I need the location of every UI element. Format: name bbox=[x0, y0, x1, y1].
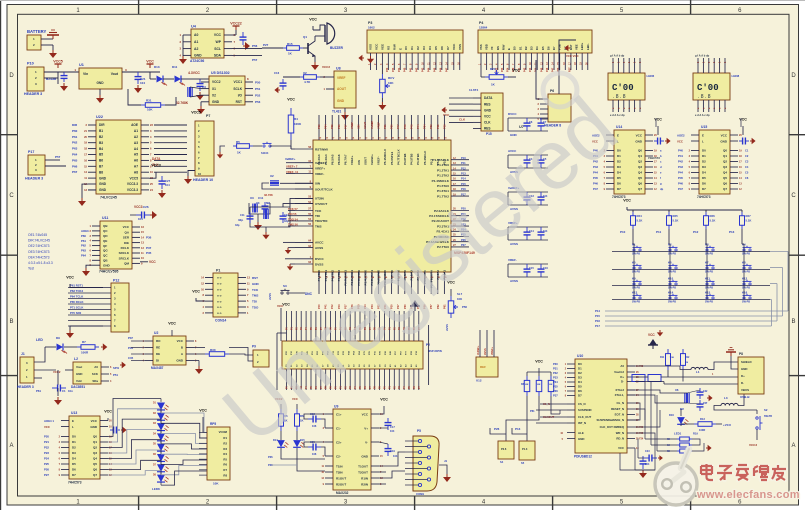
ground C4 bbox=[60, 83, 68, 91]
svg-text:P62: P62 bbox=[81, 244, 86, 248]
svg-text:P15: P15 bbox=[486, 132, 492, 136]
svg-text:U9: U9 bbox=[334, 405, 338, 409]
svg-text:P45: P45 bbox=[433, 67, 436, 72]
svg-text:P46: P46 bbox=[678, 182, 683, 186]
svg-text:A5: A5 bbox=[134, 153, 138, 157]
wire trio bottoms bbox=[526, 396, 528, 441]
svg-text:LED+: LED+ bbox=[580, 42, 584, 50]
svg-text:e d A A c dp: e d A A c dp bbox=[610, 113, 625, 117]
svg-text:D3: D3 bbox=[578, 376, 582, 380]
capacitor C3 bbox=[197, 79, 204, 91]
svg-text:P70 SD0: P70 SD0 bbox=[70, 311, 82, 315]
power P1 vcc bbox=[196, 298, 205, 301]
resistor R5b bbox=[233, 144, 253, 149]
svg-text:VCC2: VCC2 bbox=[322, 65, 330, 69]
svg-text:VCC5: VCC5 bbox=[129, 176, 138, 180]
svg-text:D11: D11 bbox=[172, 65, 178, 69]
svg-text:P33: P33 bbox=[392, 67, 395, 72]
svg-text:P35: P35 bbox=[553, 385, 558, 389]
power AVCC bbox=[283, 241, 295, 243]
svg-text:GND: GND bbox=[176, 359, 184, 363]
svg-text:P47: P47 bbox=[678, 187, 683, 191]
svg-text:o o: o o bbox=[217, 305, 222, 309]
svg-text:P35: P35 bbox=[146, 251, 152, 255]
resistor R13 bbox=[694, 422, 716, 427]
svg-text:X6: X6 bbox=[675, 388, 679, 392]
svg-text:10K: 10K bbox=[147, 108, 153, 112]
svg-text:D5: D5 bbox=[434, 46, 438, 50]
svg-text:VCC: VCC bbox=[380, 397, 388, 401]
svg-text:100K: 100K bbox=[294, 122, 302, 126]
svg-text:32.768: 32.768 bbox=[264, 193, 273, 197]
svg-text:GND: GND bbox=[361, 454, 369, 458]
svg-text:D6: D6 bbox=[702, 182, 706, 186]
svg-text:Q5: Q5 bbox=[93, 462, 97, 466]
svg-text:DVSS: DVSS bbox=[315, 262, 323, 266]
svg-text:P67: P67 bbox=[72, 170, 78, 174]
svg-text:Q1: Q1 bbox=[303, 35, 307, 39]
svg-text:C15: C15 bbox=[529, 266, 534, 270]
svg-text:U14: U14 bbox=[616, 125, 622, 129]
svg-text:P17: P17 bbox=[595, 324, 600, 328]
svg-text:VREF: VREF bbox=[350, 122, 354, 129]
svg-text:GND: GND bbox=[103, 263, 111, 267]
svg-text:P34: P34 bbox=[128, 346, 133, 350]
svg-text:DI: DI bbox=[156, 359, 159, 363]
svg-text:D4: D4 bbox=[535, 46, 539, 50]
svg-text:AVSS: AVSS bbox=[484, 348, 487, 355]
svg-text:P30: P30 bbox=[553, 362, 558, 366]
svg-text:RS: RS bbox=[386, 46, 390, 50]
svg-text:C2: C2 bbox=[745, 154, 749, 158]
svg-text:EOT_N: EOT_N bbox=[615, 413, 624, 417]
svg-text:5.1K: 5.1K bbox=[673, 219, 679, 223]
svg-text:VCC3.3: VCC3.3 bbox=[127, 188, 138, 192]
svg-text:Q4: Q4 bbox=[723, 171, 727, 175]
svg-text:P5.3: P5.3 bbox=[429, 159, 433, 165]
svg-text:D1: D1 bbox=[518, 46, 522, 50]
svg-text:VCOM: VCOM bbox=[219, 430, 228, 434]
svg-text:DNC: DNC bbox=[305, 292, 313, 296]
svg-text:P4.1TB1: P4.1TB1 bbox=[324, 270, 328, 282]
svg-text:AOUT: AOUT bbox=[337, 87, 346, 91]
svg-text:D13: D13 bbox=[154, 65, 160, 69]
ground P15 bbox=[441, 107, 447, 113]
svg-text:GND: GND bbox=[337, 99, 345, 103]
svg-text:X3: X3 bbox=[256, 201, 260, 205]
svg-text:P31: P31 bbox=[553, 367, 558, 371]
svg-text:XTAL2: XTAL2 bbox=[615, 388, 624, 392]
svg-text:XOUT: XOUT bbox=[363, 121, 367, 129]
svg-text:P27: P27 bbox=[263, 43, 269, 47]
svg-text:E: E bbox=[398, 48, 402, 50]
svg-text:GND: GND bbox=[484, 108, 492, 112]
svg-text:D4: D4 bbox=[617, 171, 621, 175]
svg-text:P61: P61 bbox=[81, 239, 86, 243]
svg-text:Q3: Q3 bbox=[723, 165, 727, 169]
svg-text:SW-PB: SW-PB bbox=[632, 271, 640, 274]
svg-text:A2: A2 bbox=[134, 135, 138, 139]
wire diode chain bbox=[149, 72, 151, 79]
svg-text:TDO/TDI: TDO/TDI bbox=[315, 219, 328, 223]
svg-text:L3: L3 bbox=[724, 396, 728, 400]
svg-text:P52: P52 bbox=[255, 94, 261, 98]
wire LEDs to MAX232 inputs bbox=[281, 448, 325, 459]
svg-text:P44: P44 bbox=[416, 124, 420, 129]
power VCC U13 bbox=[104, 409, 112, 418]
svg-text:TCK 57: TCK 57 bbox=[288, 207, 298, 211]
svg-text:RP5: RP5 bbox=[210, 422, 216, 426]
svg-text:VCC: VCC bbox=[91, 419, 98, 423]
svg-text:D7: D7 bbox=[617, 187, 621, 191]
svg-text:100R: 100R bbox=[699, 428, 705, 432]
svg-text:VCC: VCC bbox=[648, 333, 655, 337]
svg-text:QM: QM bbox=[124, 262, 129, 266]
svg-text:VCC3: VCC3 bbox=[151, 163, 161, 167]
svg-text:P11: P11 bbox=[656, 230, 662, 234]
svg-text:P57: P57 bbox=[55, 155, 61, 159]
svg-text:SUSPEND: SUSPEND bbox=[578, 408, 592, 412]
LED D5 bbox=[157, 444, 169, 452]
svg-text:P22: P22 bbox=[44, 446, 49, 450]
svg-text:P45: P45 bbox=[540, 67, 543, 72]
svg-text:P41: P41 bbox=[678, 154, 683, 158]
svg-text:TCK: TCK bbox=[315, 209, 322, 213]
svg-text:P46: P46 bbox=[403, 124, 407, 129]
ground RCV bbox=[381, 98, 383, 102]
svg-text:RO: RO bbox=[156, 339, 161, 343]
svg-text:D1: D1 bbox=[702, 154, 706, 158]
svg-text:P5.2: P5.2 bbox=[436, 159, 440, 165]
svg-text:D3: D3 bbox=[72, 451, 76, 455]
svg-text:AVSS: AVSS bbox=[315, 246, 323, 250]
svg-text:P10: P10 bbox=[620, 230, 626, 234]
wire VeREF nets bbox=[286, 162, 295, 164]
wire LED ladder right bbox=[160, 410, 162, 413]
svg-text:P1.0TACLK: P1.0TACLK bbox=[432, 158, 449, 162]
svg-text:VCC: VCC bbox=[374, 43, 378, 50]
svg-text:VCC: VCC bbox=[282, 302, 290, 306]
svg-text:XT2OUT: XT2OUT bbox=[315, 202, 327, 206]
svg-text:X1: X1 bbox=[212, 87, 216, 91]
svg-text:RS: RS bbox=[496, 46, 500, 50]
svg-text:VCC: VCC bbox=[287, 97, 295, 101]
svg-text:GND: GND bbox=[635, 139, 643, 143]
svg-text:P54: P54 bbox=[423, 124, 427, 129]
svg-text:P65 RCLK: P65 RCLK bbox=[70, 300, 84, 304]
svg-text:R19: R19 bbox=[693, 432, 698, 436]
svg-text:P64: P64 bbox=[324, 124, 328, 129]
svg-text:VCC3: VCC3 bbox=[134, 205, 143, 209]
svg-text:D0: D0 bbox=[404, 46, 408, 50]
svg-text:LED1: LED1 bbox=[674, 432, 682, 436]
svg-text:104: 104 bbox=[393, 454, 398, 458]
svg-text:Q1: Q1 bbox=[723, 154, 727, 158]
svg-text:Q1: Q1 bbox=[93, 440, 97, 444]
svg-text:D0: D0 bbox=[513, 46, 517, 50]
svg-text:P37: P37 bbox=[553, 394, 558, 398]
ground P2 top bbox=[410, 300, 420, 311]
IC U12 bbox=[476, 357, 498, 377]
resistor R26 bbox=[705, 210, 707, 212]
svg-text:GND: GND bbox=[76, 372, 82, 376]
svg-text:P2.6: P2.6 bbox=[501, 447, 507, 451]
power VCC2 U8 bbox=[323, 69, 330, 73]
svg-text:P4.7TBCLK: P4.7TBCLK bbox=[396, 148, 400, 165]
svg-text:P47: P47 bbox=[396, 124, 400, 129]
svg-text:C2+: C2+ bbox=[336, 440, 342, 444]
svg-text:P63: P63 bbox=[317, 124, 321, 129]
svg-text:Q0: Q0 bbox=[93, 435, 97, 439]
svg-text:5K: 5K bbox=[667, 451, 670, 453]
svg-text:SW-PB: SW-PB bbox=[705, 301, 713, 304]
svg-text:P60: P60 bbox=[72, 129, 78, 133]
svg-text:e d A A c dp: e d A A c dp bbox=[695, 113, 710, 117]
svg-text:VCC: VCC bbox=[44, 425, 50, 429]
ground U11 bbox=[86, 265, 92, 268]
svg-text:A2: A2 bbox=[194, 47, 198, 51]
capacitor C28 bbox=[110, 427, 120, 434]
svg-text:R11: R11 bbox=[660, 356, 665, 359]
svg-text:P45: P45 bbox=[409, 124, 413, 129]
svg-text:Q6: Q6 bbox=[723, 182, 727, 186]
svg-text:P13: P13 bbox=[515, 427, 521, 431]
wire keypad row 4 bbox=[612, 299, 770, 301]
svg-text:R7: R7 bbox=[223, 468, 227, 472]
svg-text:f: f bbox=[660, 176, 661, 180]
svg-text:TDI: TDI bbox=[252, 300, 257, 304]
svg-text:D: D bbox=[9, 73, 14, 79]
svg-text:CLK: CLK bbox=[484, 121, 491, 125]
svg-text:P57: P57 bbox=[252, 58, 258, 62]
svg-text:P51: P51 bbox=[383, 124, 387, 129]
svg-text:Q1: Q1 bbox=[638, 154, 642, 158]
svg-text:VCC: VCC bbox=[512, 68, 520, 72]
svg-text:VREF-: VREF- bbox=[315, 172, 324, 176]
svg-text:B: B bbox=[791, 319, 795, 325]
ground P7 bbox=[188, 171, 195, 177]
svg-text:D7: D7 bbox=[72, 473, 76, 477]
svg-text:D+: D+ bbox=[620, 375, 624, 379]
svg-text:C6: C6 bbox=[745, 176, 749, 180]
svg-text:15P: 15P bbox=[703, 402, 708, 405]
LED D3 bbox=[157, 423, 169, 431]
capacitor C22 bbox=[697, 388, 704, 399]
wire U4 left pins to gnd bbox=[182, 35, 184, 56]
svg-text:TDI 55: TDI 55 bbox=[288, 212, 297, 216]
svg-text:A: A bbox=[9, 443, 13, 449]
svg-text:LED: LED bbox=[36, 338, 43, 342]
svg-text:P56: P56 bbox=[252, 44, 258, 48]
svg-text:12864: 12864 bbox=[479, 26, 488, 30]
capacitor C18 bbox=[308, 416, 321, 423]
svg-text:33p: 33p bbox=[235, 223, 240, 227]
svg-text:VSS: VSS bbox=[369, 44, 373, 50]
ground R7 bbox=[101, 343, 107, 350]
svg-text:R6: R6 bbox=[223, 463, 227, 467]
svg-text:LED-: LED- bbox=[586, 43, 590, 50]
svg-text:CLK: CLK bbox=[459, 118, 466, 122]
svg-text:VDD: VDD bbox=[485, 44, 489, 50]
svg-text:Q0: Q0 bbox=[723, 149, 727, 153]
svg-text:P24: P24 bbox=[44, 457, 49, 461]
wire P2 right bus bbox=[428, 325, 430, 385]
svg-text:o o: o o bbox=[217, 311, 222, 315]
svg-text:P6.6/A6: P6.6/A6 bbox=[337, 154, 341, 165]
wire P6 up bbox=[559, 40, 576, 94]
svg-text:I/O: I/O bbox=[238, 93, 243, 97]
svg-text:VCC: VCC bbox=[535, 359, 543, 363]
wire J1 bbox=[34, 347, 45, 362]
ground C26 bbox=[150, 211, 157, 219]
svg-text:P53: P53 bbox=[255, 100, 261, 104]
svg-text:P47: P47 bbox=[552, 67, 555, 72]
svg-text:GND: GND bbox=[99, 182, 107, 186]
svg-text:D3: D3 bbox=[422, 46, 426, 50]
svg-text:C: C bbox=[791, 193, 796, 199]
svg-text:C1+: C1+ bbox=[336, 412, 342, 416]
svg-text:R24: R24 bbox=[637, 214, 643, 218]
svg-text:D15: D15 bbox=[300, 439, 305, 442]
power VCC buzzer bbox=[309, 17, 317, 26]
ground DVSS pin bbox=[290, 263, 295, 265]
svg-text:P21: P21 bbox=[44, 440, 49, 444]
wire resistor stack bbox=[645, 438, 677, 440]
wire D9 bbox=[45, 346, 56, 348]
svg-text:P51: P51 bbox=[255, 87, 261, 91]
svg-text:Q0: Q0 bbox=[638, 149, 642, 153]
svg-text:D2: D2 bbox=[72, 446, 76, 450]
svg-text:C3: C3 bbox=[745, 160, 749, 164]
svg-text:SW-PB: SW-PB bbox=[632, 287, 640, 290]
svg-text:D3: D3 bbox=[702, 165, 706, 169]
header P7 bbox=[191, 110, 201, 119]
svg-text:P65: P65 bbox=[72, 158, 78, 162]
svg-text:U13: U13 bbox=[71, 411, 77, 415]
svg-text:6M: 6M bbox=[266, 201, 271, 205]
svg-text:SW-PB: SW-PB bbox=[764, 415, 772, 418]
svg-text:J1: J1 bbox=[444, 459, 448, 463]
svg-text:P65: P65 bbox=[330, 124, 334, 129]
svg-text:LED8: LED8 bbox=[732, 74, 740, 78]
svg-text:P4.6TB6: P4.6TB6 bbox=[403, 153, 407, 165]
svg-text:SW-PB: SW-PB bbox=[742, 271, 750, 274]
svg-text:WR_N: WR_N bbox=[616, 431, 624, 435]
svg-text:25 F24: 25 F24 bbox=[636, 438, 644, 441]
svg-text:B5: B5 bbox=[99, 153, 103, 157]
svg-text:B3: B3 bbox=[99, 141, 103, 145]
svg-text:U8: U8 bbox=[336, 67, 341, 71]
resistor X2 bbox=[300, 75, 320, 80]
svg-text:P37: P37 bbox=[128, 336, 133, 340]
svg-text:USB-B: USB-B bbox=[740, 395, 750, 399]
svg-text:P4.4TB4: P4.4TB4 bbox=[416, 153, 420, 165]
svg-text:D6: D6 bbox=[546, 46, 550, 50]
ground U8 bbox=[344, 108, 346, 112]
svg-text:C4: C4 bbox=[745, 165, 749, 169]
svg-text:R5: R5 bbox=[236, 140, 240, 144]
svg-text:32p: 32p bbox=[238, 218, 243, 222]
svg-text:P64 TCLK: P64 TCLK bbox=[70, 294, 83, 298]
svg-text:P61: P61 bbox=[72, 135, 78, 139]
wire U10 left bus bbox=[540, 403, 567, 405]
svg-text:P16: P16 bbox=[595, 319, 600, 323]
svg-text:GND: GND bbox=[90, 425, 98, 429]
svg-text:VCC: VCC bbox=[452, 43, 456, 50]
svg-text:J1: J1 bbox=[21, 352, 25, 356]
switch S1 bbox=[263, 142, 272, 147]
svg-text:R26: R26 bbox=[710, 214, 716, 218]
P2 top pins bbox=[286, 311, 288, 341]
svg-text:P56: P56 bbox=[462, 305, 467, 309]
svg-text:OE4:74HC573: OE4:74HC573 bbox=[28, 255, 50, 259]
svg-text:T2OUT: T2OUT bbox=[358, 470, 368, 474]
display LED8 bbox=[693, 73, 730, 100]
svg-text:P37: P37 bbox=[146, 246, 152, 250]
svg-text:D5: D5 bbox=[541, 46, 545, 50]
svg-text:X3: X3 bbox=[250, 196, 254, 200]
svg-text:P51: P51 bbox=[113, 373, 118, 377]
wire P17 bbox=[45, 159, 60, 161]
svg-text:5.1K: 5.1K bbox=[637, 219, 643, 223]
svg-text:Q7: Q7 bbox=[723, 187, 727, 191]
wire battery to ground bbox=[41, 38, 53, 40]
svg-text:Q2: Q2 bbox=[93, 446, 97, 450]
wire keypad row 3 bbox=[612, 285, 770, 287]
svg-text:P44: P44 bbox=[428, 67, 431, 72]
svg-text:VCC: VCC bbox=[721, 133, 728, 137]
svg-text:1.5K: 1.5K bbox=[670, 357, 675, 359]
svg-text:C26: C26 bbox=[143, 205, 149, 209]
svg-text:Vin: Vin bbox=[83, 72, 88, 76]
svg-text:U1: U1 bbox=[79, 63, 84, 67]
svg-text:R23: R23 bbox=[490, 67, 496, 71]
svg-text:R2: R2 bbox=[223, 442, 227, 446]
watermark registered mark bbox=[543, 73, 577, 107]
svg-text:RST: RST bbox=[568, 67, 571, 72]
svg-text:o o: o o bbox=[217, 282, 222, 286]
svg-text:A8: A8 bbox=[134, 170, 138, 174]
svg-text:D7: D7 bbox=[702, 187, 706, 191]
svg-text:P4.0TB0: P4.0TB0 bbox=[317, 270, 321, 282]
resistor R5 bbox=[279, 409, 284, 431]
svg-text:VREF+ 7: VREF+ 7 bbox=[286, 165, 298, 169]
svg-text:ALE: ALE bbox=[578, 431, 584, 435]
svg-text:P61 RST1: P61 RST1 bbox=[70, 283, 83, 287]
svg-text:CON9: CON9 bbox=[416, 492, 424, 496]
capacitor C1 bbox=[65, 369, 73, 371]
svg-text:o o: o o bbox=[217, 293, 222, 297]
svg-text:VBUS: VBUS bbox=[741, 388, 749, 392]
svg-text:SUSPEND&WAKE_N: SUSPEND&WAKE_N bbox=[596, 418, 624, 422]
ground battery+ bbox=[47, 30, 59, 39]
svg-text:SHIELD: SHIELD bbox=[741, 360, 752, 364]
svg-text:P32: P32 bbox=[386, 67, 389, 72]
svg-text:SW-PB: SW-PB bbox=[742, 253, 750, 256]
svg-text:SW-PB: SW-PB bbox=[668, 301, 676, 304]
svg-text:o o: o o bbox=[217, 276, 222, 280]
svg-text:BUZZER: BUZZER bbox=[330, 46, 344, 50]
wire 4.3VCC run bbox=[200, 78, 213, 80]
resistor R15 bbox=[283, 46, 303, 51]
capacitor C21b bbox=[640, 456, 647, 469]
svg-text:CLK_OUT: CLK_OUT bbox=[578, 415, 591, 419]
LED D14 bbox=[280, 404, 282, 409]
svg-text:104: 104 bbox=[138, 217, 143, 221]
svg-text:P43: P43 bbox=[422, 67, 425, 72]
svg-text:TL431: TL431 bbox=[332, 110, 341, 114]
svg-text:D5: D5 bbox=[72, 462, 76, 466]
